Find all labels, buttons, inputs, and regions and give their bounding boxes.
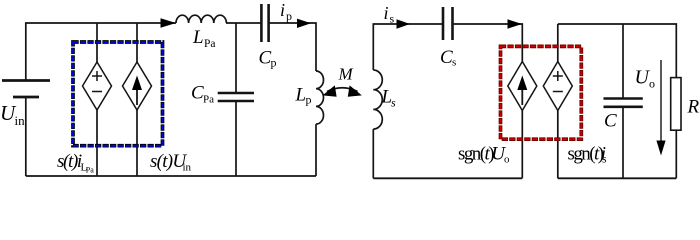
svg-text:p: p — [286, 9, 292, 23]
svg-text:Pa: Pa — [203, 94, 214, 106]
inductor L_Pa — [176, 15, 226, 23]
resistor R — [671, 78, 681, 131]
svg-text:L: L — [192, 27, 204, 48]
svg-text:L: L — [295, 84, 307, 105]
arrowhead U_o — [656, 141, 665, 156]
bottom wire output side — [558, 177, 677, 179]
svg-text:sgn(t)U: sgn(t)U — [458, 144, 506, 165]
svg-text:o: o — [504, 154, 510, 166]
red diamond 1 current source wires — [521, 111, 523, 179]
svg-text:i: i — [280, 0, 285, 20]
dependent current source diamond (blue box right) — [123, 62, 152, 110]
coupling arrow M arc — [327, 88, 358, 92]
arrowhead i_s — [397, 19, 411, 28]
capacitor C_p — [260, 4, 263, 42]
svg-text:p: p — [271, 56, 277, 70]
capacitor C_Pa — [218, 92, 254, 95]
svg-text:s: s — [390, 12, 395, 26]
svg-text:C: C — [604, 111, 617, 132]
wire L_Pa to C_p — [226, 22, 261, 24]
arrowhead i_p — [297, 19, 311, 28]
battery U_in — [2, 79, 50, 82]
wire C_p to top-right corner down to L_p — [269, 23, 316, 71]
capacitor C_s — [442, 7, 445, 40]
svg-text:sgn(t)i: sgn(t)i — [568, 144, 606, 165]
arrowhead into L_Pa — [161, 18, 177, 27]
top wire output side — [558, 24, 677, 78]
bottom wire secondary loop — [373, 177, 522, 179]
red diamond 2 (voltage source) — [543, 62, 572, 111]
svg-text:in: in — [15, 113, 26, 128]
svg-text:M: M — [338, 65, 354, 84]
secondary: L_s top wire — [373, 24, 443, 70]
red dashed box — [501, 46, 582, 139]
svg-text:s(t)i: s(t)i — [57, 151, 82, 172]
svg-text:s: s — [391, 96, 396, 110]
blue dashed box — [73, 42, 163, 146]
svg-text:Pa: Pa — [204, 38, 216, 50]
svg-text:in: in — [183, 162, 192, 174]
wire node A branch (left diamond) — [96, 23, 98, 62]
dependent voltage source diamond (blue box left) — [83, 62, 112, 110]
wire node B branch (right diamond) — [136, 23, 138, 62]
wire C_s to red box corner — [453, 24, 523, 62]
capacitor C branch — [622, 24, 624, 99]
arrowhead M right — [348, 85, 362, 96]
svg-text:s: s — [602, 154, 607, 166]
wire C_Pa branch — [235, 23, 237, 93]
U_o arrow line — [660, 60, 662, 142]
inductor L_s — [373, 70, 382, 129]
svg-text:s: s — [452, 57, 456, 69]
svg-text:p: p — [306, 93, 312, 107]
svg-text:Pa: Pa — [86, 166, 94, 175]
wire top-left from battery to L_Pa — [26, 23, 176, 81]
red diamond 2 wires — [557, 24, 559, 62]
red diamond 1 (current source) — [508, 62, 537, 111]
arrowhead current source red — [517, 76, 527, 91]
svg-text:R: R — [687, 97, 700, 118]
svg-text:i: i — [384, 3, 389, 23]
inductor L_p — [316, 71, 324, 124]
arrowhead M left — [323, 85, 337, 96]
arrowhead into red box — [508, 19, 523, 28]
svg-text:o: o — [649, 77, 655, 91]
bottom wire primary — [26, 175, 316, 177]
arrowhead current source blue — [132, 76, 142, 91]
